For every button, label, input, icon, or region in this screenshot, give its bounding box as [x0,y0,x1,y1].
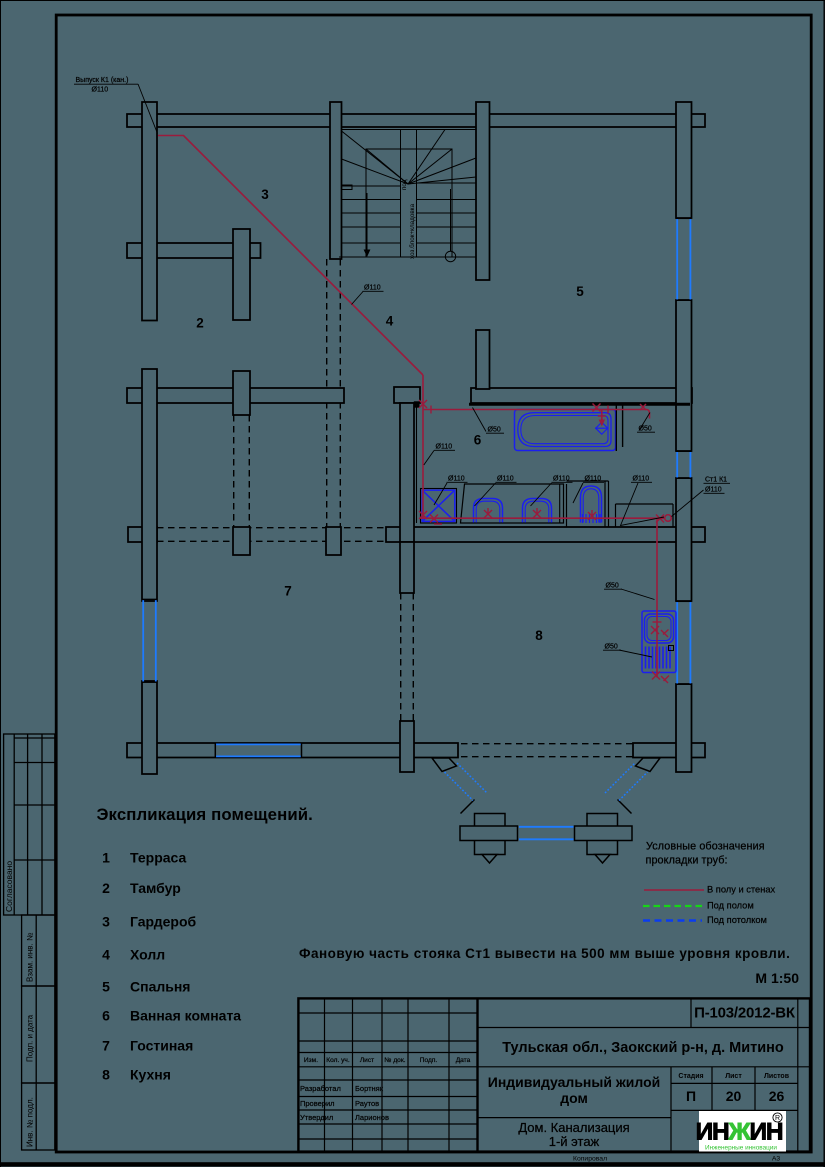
legend line in floor [644,889,704,891]
svg-text:3: 3 [261,187,269,202]
svg-text:7: 7 [284,584,292,599]
washbasin counter [461,484,564,523]
svg-text:Ø50: Ø50 [605,644,618,651]
svg-text:8: 8 [535,628,543,643]
svg-text:Тамбур: Тамбур [130,880,181,896]
bay block lower left vertical [475,814,506,855]
bay window glazing left [445,763,648,801]
leader O50 bath left [473,408,487,432]
svg-text:R: R [775,1115,780,1122]
svg-text:Лист: Лист [360,1057,374,1064]
svg-text:Ø110: Ø110 [553,476,570,483]
leader O110 toilet [573,483,583,503]
svg-text:Ст1 К1: Ст1 К1 [705,477,727,484]
stair arrow head [364,250,371,258]
leader O110 shower [434,483,447,505]
bathtub bowl inner [521,416,608,444]
wall V1 left exterior lower [142,681,157,774]
stair winder fan lines [342,131,409,184]
svg-text:Ø110: Ø110 [705,487,722,494]
stair handrail notch [342,185,353,190]
svg-text:Ø50: Ø50 [639,426,652,433]
svg-text:Кухня: Кухня [130,1067,171,1083]
svg-text:6: 6 [474,433,482,448]
legend line under ceiling [643,919,702,922]
svg-text:Раутов: Раутов [355,1099,379,1108]
svg-text:Терраса: Терраса [130,850,186,866]
washbasin 2 [523,499,552,523]
svg-text:М 1:50: М 1:50 [755,970,799,986]
svg-text:Дом. Канализация: Дом. Канализация [518,1120,629,1135]
svg-text:Индивидуальный жилой: Индивидуальный жилой [488,1074,660,1090]
svg-text:Дата: Дата [456,1057,471,1064]
svg-text:Лист: Лист [725,1073,742,1080]
bathtub bowl [518,413,611,447]
window right wall kitchen [676,602,678,684]
leader O50 kitchen lower [619,650,652,657]
stair opening rect [366,149,452,257]
leader O110 stack branch [621,483,665,526]
logo INZHIN [696,1111,786,1152]
svg-text:Подп. и дата: Подп. и дата [26,1014,35,1062]
svg-text:5: 5 [576,284,584,299]
stair bottom line [339,256,476,258]
svg-text:4: 4 [386,314,394,329]
pipe bath drain drop [601,410,603,425]
dashed walls [157,259,633,757]
wall V3 block below H4 [326,527,341,555]
stair walking line up [450,189,452,251]
svg-text:прокладки труб:: прокладки труб: [646,855,728,867]
wall V6 right exterior s4 [676,684,692,772]
svg-text:Взам. инв. №: Взам. инв. № [26,932,35,982]
washbasin 1 [474,499,503,523]
leader O110 basin2 [531,483,552,506]
pipe branch to bath [423,409,647,411]
window left wall living room [142,600,144,682]
legend line under floor [643,905,702,907]
left attribute table: lower cells [22,915,55,1150]
svg-text:В полу и стенах: В полу и стенах [707,885,775,895]
svg-text:Гардероб: Гардероб [130,914,197,930]
bay stub upper left [432,758,457,772]
stage columns [678,1073,789,1080]
leader O50 kitchen upper [621,589,655,600]
stair walking line down [366,193,368,252]
svg-text:Фановую часть стояка Ст1 вывес: Фановую часть стояка Ст1 вывести на 500 … [299,946,790,961]
wall V6 right exterior s2 [676,300,692,451]
dashed wall H5 terrace [461,743,633,745]
leader vypusk K1 [138,84,158,134]
stair flight divider left [400,130,402,258]
wall V2 lower segment [233,371,250,415]
svg-text:хоз.блок+кладовка: хоз.блок+кладовка [408,203,416,259]
svg-text:4: 4 [102,947,110,963]
wall V1 left exterior upper [142,102,157,321]
svg-text:Спальня: Спальня [130,979,190,995]
wall V6 right exterior s1 [676,102,692,218]
svg-text:Экспликация помещений.: Экспликация помещений. [97,805,313,824]
wall V3 stair west [330,102,342,259]
kitchen sink drainboard hatch [646,647,671,669]
wall V2 block below H4 [233,527,250,555]
stair steps left flight [342,185,401,187]
window right wall bedroom [676,219,678,300]
wall H3b bathroom north [471,388,692,403]
svg-text:Ø110: Ø110 [436,444,453,451]
window bottom wall [216,743,301,745]
stair steps right flight [417,182,477,184]
wall H4 solid part south of bathroom [386,527,705,542]
right counter [616,504,674,527]
bathroom north wall bold edge [469,403,690,406]
svg-text:7: 7 [102,1038,110,1054]
wall H5 bottom right solid [633,743,705,758]
pipe to kitchen [656,518,658,677]
dashed wall V2 [233,415,235,527]
wall V5 stair east [476,102,490,280]
svg-text:8: 8 [102,1067,110,1083]
svg-text:Инженерные инновации: Инженерные инновации [705,1145,777,1152]
window end caps [142,218,692,757]
svg-text:Инв. № подл.: Инв. № подл. [26,1097,35,1147]
svg-text:Ø110: Ø110 [633,476,650,483]
svg-text:Стадия: Стадия [678,1073,703,1080]
svg-text:Ø50: Ø50 [488,427,501,434]
dashed wall H4 [157,527,386,529]
svg-text:Гостиная: Гостиная [130,1038,193,1054]
svg-text:А3: А3 [772,1156,781,1163]
wall V2 upper segment [233,229,250,320]
svg-text:№ док.: № док. [384,1057,405,1064]
pipe bottom run [421,517,665,519]
svg-text:Холл: Холл [130,947,165,963]
svg-text:Кол. уч.: Кол. уч. [326,1057,350,1064]
bay stub upper right [636,758,661,772]
svg-text:Подп.: Подп. [420,1057,438,1064]
pipe outlet elbow [158,136,423,376]
title block header labels [304,1057,471,1064]
washbasin counter inner edge [559,484,561,523]
leader St1 K1 [672,490,704,517]
svg-text:20: 20 [726,1088,742,1104]
svg-text:Бортняк: Бортняк [355,1084,384,1093]
svg-text:П-103/2012-ВК: П-103/2012-ВК [694,1005,796,1022]
title block signature names [300,1084,389,1122]
stack St1 circle [665,515,672,522]
bay block lower left diag edge [461,800,475,814]
pipe right elbow [647,410,650,419]
wall V4 bathroom west [400,403,414,542]
wall V1 left exterior middle [142,369,157,601]
wall V5 stair east lower [476,330,490,389]
svg-text:Согласовано: Согласовано [4,861,14,912]
wall V6 right exterior s3 [676,478,692,601]
bathtub outer [515,410,616,451]
svg-text:Ø110: Ø110 [92,87,109,94]
bay block lower left horizontal [460,826,518,841]
svg-text:Ларионов: Ларионов [355,1113,389,1122]
svg-text:Выпуск К1 (кан.): Выпуск К1 (кан.) [76,77,129,84]
svg-text:Условные обозначения: Условные обозначения [646,841,765,853]
svg-text:Ø50: Ø50 [606,583,619,590]
svg-text:Изм.: Изм. [304,1057,318,1064]
svg-text:Копировал: Копировал [573,1156,607,1163]
svg-text:П: П [686,1088,696,1104]
leader O50 bath right [639,413,650,431]
svg-text:Листов: Листов [764,1073,790,1080]
stair walk start circle [445,251,455,261]
svg-text:6: 6 [102,1008,110,1024]
bay block lower right horizontal [575,826,633,841]
bay block lower right wedge [595,855,610,864]
svg-text:2: 2 [196,316,204,331]
dashed wall V4 [400,593,402,721]
kitchen sink bowl [645,614,674,643]
svg-text:Тульская обл., Заокский р-н, д: Тульская обл., Заокский р-н, д. Митино [502,1040,784,1056]
leader O110 at bathroom riser [424,451,434,466]
shower tray blue [422,490,455,521]
stair top line [342,129,477,131]
bath side panel lines [615,404,617,451]
left attribute table: soglasovano block [4,734,55,915]
wall H3a middle left [127,388,344,403]
wall V4 below bathroom [400,542,414,593]
bay window glazing center [519,827,574,840]
bay block lower right vertical [587,814,618,855]
svg-text:дом: дом [560,1090,588,1106]
svg-text:Ø110: Ø110 [585,476,602,483]
bathroom west wall inner face [416,403,418,523]
wall H2 rooms 2-3 [127,243,261,258]
svg-text:1: 1 [102,850,110,866]
kitchen sink outer [642,611,676,673]
pipe riser vertical [422,375,424,518]
svg-text:Разработал: Разработал [300,1084,341,1093]
svg-text:26: 26 [769,1088,785,1104]
svg-text:Ø110: Ø110 [497,476,514,483]
wall H4 left end cap [128,527,157,542]
wall H5 bottom left solid [127,743,458,758]
kitchen sink detail square [669,646,674,651]
svg-text:5: 5 [102,979,110,995]
svg-text:Под потолком: Под потолком [707,915,767,925]
leader O110 on riser diagonal [352,292,364,305]
bathtub drain symbol [595,422,609,434]
bay block lower left wedge [482,855,497,864]
svg-text:Ø110: Ø110 [448,476,465,483]
svg-text:1-й этаж: 1-й этаж [549,1134,600,1149]
red fitting marks [419,400,669,683]
title block grid [298,998,810,1152]
dashed wall V3 under stairs [326,259,328,527]
stair flight divider right [416,130,418,258]
bath drain arrow [599,420,605,427]
bay block lower right diag edge [618,800,632,814]
window right wall bathroom [676,452,678,478]
toilet [581,486,602,523]
svg-text:Ванная комната: Ванная комната [130,1008,241,1024]
svg-text:Проверил: Проверил [300,1099,335,1108]
svg-text:Под полом: Под полом [707,901,754,911]
bathroom door jamb block [414,401,420,407]
wall V4 bay block [400,721,414,772]
toilet cell walls [567,481,609,527]
svg-text:Утвердил: Утвердил [300,1113,333,1122]
wall H1 top exterior [127,114,705,127]
svg-text:ИНЖИН: ИНЖИН [696,1119,783,1146]
svg-text:3: 3 [102,914,110,930]
svg-text:под: под [401,179,408,190]
wall V4 crossing block at H3 [394,387,420,403]
toilet cistern hatch [583,514,601,523]
leader O110 basin1 [475,483,496,506]
shower tray black outline [421,489,457,524]
svg-text:2: 2 [102,880,110,896]
svg-text:Ø110: Ø110 [364,285,381,292]
